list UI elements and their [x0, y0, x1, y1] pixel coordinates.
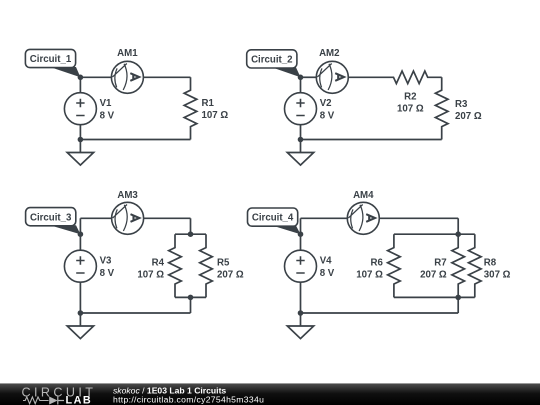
wire: corner down to parallel rail — [457, 218, 459, 234]
node: ground junction — [298, 137, 304, 143]
svg-text:AM1: AM1 — [117, 48, 138, 59]
node label flag "Circuit_2" — [272, 67, 301, 77]
voltage source V3 — [64, 250, 96, 282]
footer bar — [0, 383, 540, 384]
wire: corner down to V3 top — [79, 218, 81, 250]
node: ground junction — [78, 310, 84, 316]
wire: bottom rail down to return wire — [457, 297, 459, 313]
node label flag "Circuit_1" — [50, 67, 80, 77]
svg-text:Circuit_4: Circuit_4 — [252, 213, 294, 224]
resistor R6 — [388, 234, 401, 297]
wire: bottom rail of R6||R7||R8 — [394, 296, 475, 298]
svg-text:AM2: AM2 — [319, 48, 339, 59]
node: Circuit_3 net junction — [78, 231, 84, 237]
node: rail top junction — [188, 231, 194, 237]
ammeter AM3 — [112, 202, 144, 234]
node: rail bottom junction — [455, 295, 461, 301]
wire: Circuit_3 corner to AM3 left — [80, 217, 111, 219]
resistor R4 — [169, 234, 182, 297]
ground — [79, 313, 81, 326]
svg-text:8 V: 8 V — [320, 268, 335, 279]
wire: V3 bottom to ground junction — [79, 282, 81, 313]
node: rail top junction — [455, 231, 461, 237]
svg-text:8 V: 8 V — [320, 110, 335, 121]
svg-text:LAB: LAB — [66, 395, 93, 405]
resistor R8 — [469, 234, 482, 297]
svg-text:107 Ω: 107 Ω — [356, 269, 383, 280]
svg-text:AM3: AM3 — [117, 190, 138, 201]
svg-text:R1: R1 — [202, 98, 215, 109]
wire: AM4 right to top-right corner — [379, 217, 458, 219]
svg-text:V4: V4 — [320, 256, 332, 267]
svg-text:AM4: AM4 — [353, 190, 374, 201]
wire: bottom return to V3 branch — [80, 312, 190, 314]
resistor R5 — [200, 234, 213, 297]
wire: top rail of R4||R5 — [175, 233, 206, 235]
wire: V4 bottom to ground junction — [300, 282, 302, 313]
svg-text:207 Ω: 207 Ω — [217, 269, 244, 280]
voltage source V1 — [64, 93, 96, 125]
node: Circuit_1 net junction — [78, 75, 84, 81]
node: Circuit_4 net junction — [298, 231, 304, 237]
ammeter AM2 — [316, 61, 348, 93]
wire: bottom return to V4 branch — [301, 312, 459, 314]
wire: AM3 right to top-right corner — [144, 217, 191, 219]
wire: Circuit_1 node to AM1 left — [80, 76, 111, 78]
svg-text:V1: V1 — [100, 98, 112, 109]
voltage source V4 — [285, 250, 317, 282]
svg-text:107 Ω: 107 Ω — [202, 110, 229, 121]
ground — [79, 140, 81, 153]
svg-text:207 Ω: 207 Ω — [455, 111, 482, 122]
resistor R7 — [452, 234, 465, 297]
wire: node to V2 top — [300, 77, 302, 92]
node label flag "Circuit_4" — [273, 226, 301, 235]
resistor R2 (with leads from AM2 to top-right corner) — [348, 71, 441, 84]
node: Circuit_2 net junction — [298, 75, 304, 81]
svg-text:R7: R7 — [434, 257, 446, 268]
node: ground junction — [298, 310, 304, 316]
wire: Circuit_2 node to AM2 left — [301, 76, 317, 78]
ground — [300, 140, 302, 153]
wire: corner down to parallel rail — [190, 218, 192, 234]
wire: Circuit_4 corner to AM4 left — [301, 217, 348, 219]
svg-text:R8: R8 — [484, 257, 497, 268]
svg-text:107 Ω: 107 Ω — [137, 269, 164, 280]
wire: bottom return R3 to V2 branch — [301, 139, 442, 141]
wire: bottom return R1 to V1 branch — [80, 139, 190, 141]
ammeter AM4 — [347, 202, 379, 234]
wire: bottom rail down to return wire — [190, 297, 192, 313]
ammeter AM1 — [111, 61, 143, 93]
ground — [300, 313, 302, 326]
wire: corner down to V4 top — [300, 218, 302, 250]
resistor R1 — [184, 77, 197, 139]
svg-text:R2: R2 — [404, 91, 416, 102]
node: ground junction — [78, 137, 84, 143]
svg-text:Circuit_3: Circuit_3 — [30, 212, 72, 223]
svg-text:R5: R5 — [217, 257, 230, 268]
svg-text:307 Ω: 307 Ω — [484, 269, 511, 280]
svg-text:V3: V3 — [100, 256, 112, 267]
resistor R3 — [435, 77, 448, 139]
svg-text:207 Ω: 207 Ω — [420, 269, 447, 280]
svg-text:R6: R6 — [371, 257, 384, 268]
svg-text:8 V: 8 V — [100, 110, 115, 121]
svg-text:Circuit_2: Circuit_2 — [251, 55, 292, 66]
wire: AM1 right to R1 top corner — [143, 76, 190, 78]
svg-text:V2: V2 — [320, 98, 332, 109]
svg-text:http://circuitlab.com/cy2754h5: http://circuitlab.com/cy2754h5m334u — [113, 395, 264, 405]
wire: top rail of R6||R7||R8 — [394, 233, 475, 235]
svg-text:R3: R3 — [455, 99, 468, 110]
wire: bottom rail of R4||R5 — [175, 296, 206, 298]
svg-text:R4: R4 — [152, 257, 165, 268]
wire: node to V1 top — [79, 77, 81, 92]
node: rail bottom junction — [188, 295, 194, 301]
svg-text:8 V: 8 V — [100, 268, 115, 279]
voltage source V2 — [285, 93, 317, 125]
svg-text:Circuit_1: Circuit_1 — [30, 54, 72, 65]
wire: V2 bottom to ground junction — [300, 125, 302, 140]
node label flag "Circuit_3" — [50, 225, 80, 234]
svg-text:107 Ω: 107 Ω — [397, 103, 424, 114]
wire: V1 bottom to ground junction — [79, 125, 81, 140]
